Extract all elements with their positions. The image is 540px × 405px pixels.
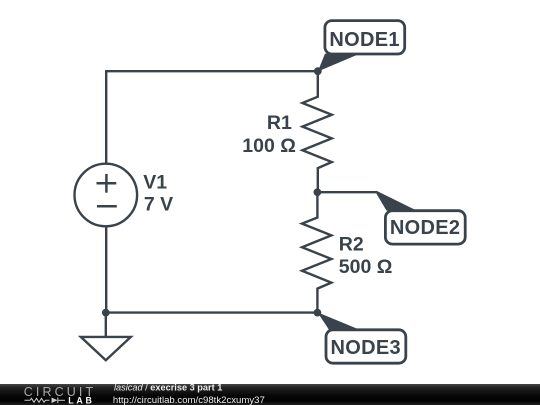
voltage source V1 <box>75 164 138 227</box>
node NODE1 flag <box>318 54 360 72</box>
node NODE2 flag <box>377 191 417 211</box>
node B dot <box>314 188 322 196</box>
svg-text:500 Ω: 500 Ω <box>339 256 393 278</box>
resistor R2 <box>302 192 331 312</box>
node A dot <box>314 67 322 75</box>
wire left vertical upper <box>105 70 107 164</box>
node NODE3 label <box>326 330 406 363</box>
footer bar <box>0 384 540 405</box>
svg-text:7 V: 7 V <box>144 193 173 215</box>
node D dot <box>102 309 110 317</box>
node NODE3 flag <box>317 312 359 329</box>
wire bottom horizontal <box>106 311 318 313</box>
svg-text:LAB: LAB <box>68 396 94 405</box>
svg-text:NODE3: NODE3 <box>330 337 400 359</box>
node NODE2 label <box>385 211 465 244</box>
svg-text:R2: R2 <box>339 233 364 255</box>
logo resistor-diode glyph <box>25 398 66 404</box>
svg-text:R1: R1 <box>267 112 292 134</box>
svg-text:http://circuitlab.com/c98tk2cx: http://circuitlab.com/c98tk2cxumy37 <box>113 395 265 405</box>
resistor R1 <box>302 71 331 192</box>
wire left vertical lower <box>105 227 107 313</box>
wire ground stub <box>105 313 107 337</box>
svg-text:NODE2: NODE2 <box>390 217 460 239</box>
svg-text:V1: V1 <box>143 172 167 194</box>
ground <box>81 337 131 360</box>
node C dot <box>314 309 322 317</box>
wire top horizontal <box>106 70 318 72</box>
svg-text:100 Ω: 100 Ω <box>242 135 296 157</box>
svg-text:lasicad / execrise 3 part 1: lasicad / execrise 3 part 1 <box>114 383 222 393</box>
wire node2 horizontal <box>317 191 376 193</box>
node NODE1 label <box>325 21 405 54</box>
svg-text:NODE1: NODE1 <box>329 29 399 51</box>
